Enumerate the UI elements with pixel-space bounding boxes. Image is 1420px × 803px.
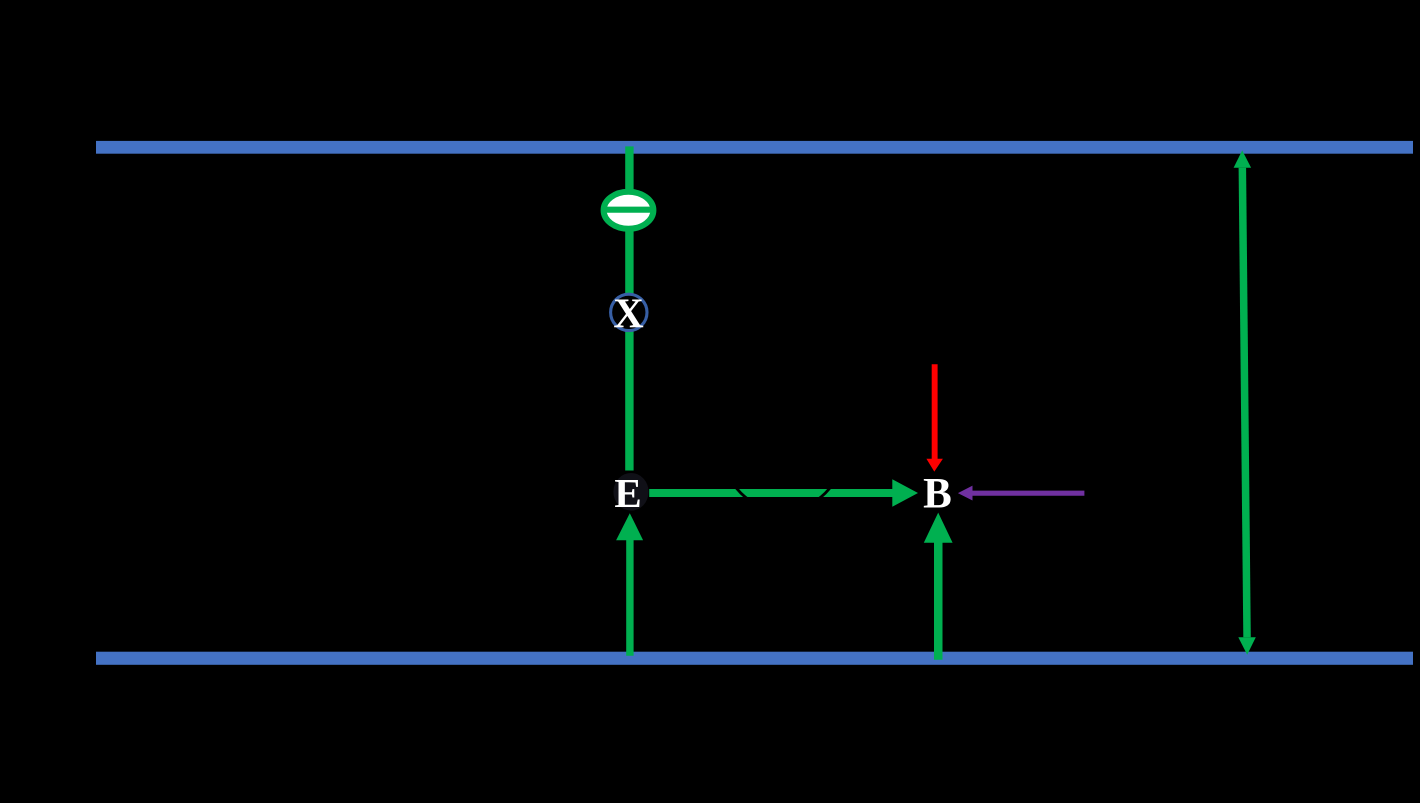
svg-text:B: B — [923, 471, 952, 518]
black circular path over arrow — [723, 391, 842, 510]
red arrow (force, down onto B) — [926, 364, 943, 471]
minus sign — [604, 207, 654, 213]
wire (vertical green beam line from top plate to E) — [625, 146, 633, 470]
dark circle behind E — [613, 473, 648, 511]
svg-text:X: X — [613, 292, 643, 338]
arrow E to B (green velocity arrow) — [649, 479, 918, 506]
bottom capacitor plate — [96, 652, 1413, 665]
top capacitor plate — [96, 141, 1413, 154]
purple arrow (pointing left at B) — [958, 486, 1085, 501]
node X (field into page marker) — [611, 294, 647, 330]
svg-text:E: E — [614, 470, 641, 516]
tall arrow top head — [1234, 150, 1252, 167]
negative charge symbol (green ellipse with minus) — [604, 192, 654, 229]
tall double-headed arrow (plate separation) : shaft — [1239, 168, 1251, 638]
green up arrow below B — [924, 513, 953, 660]
green up arrow below E — [616, 513, 643, 656]
tall arrow bottom head — [1238, 637, 1256, 654]
